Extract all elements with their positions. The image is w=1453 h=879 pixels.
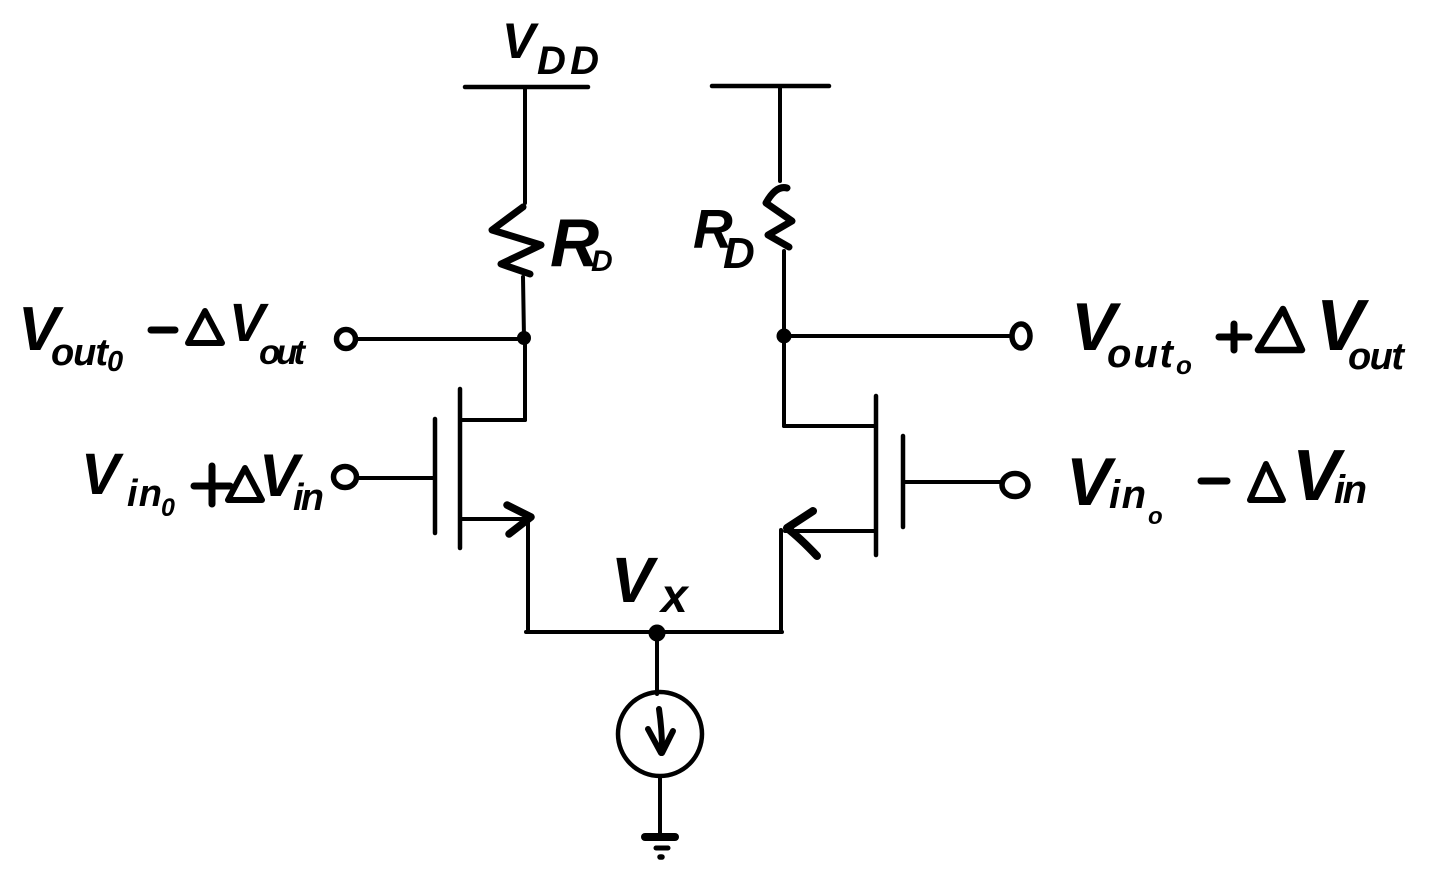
svg-text:o: o (1176, 350, 1192, 380)
svg-text:o: o (1148, 503, 1163, 530)
svg-text:in: in (127, 473, 162, 515)
svg-text:in: in (1109, 473, 1146, 517)
svg-text:0: 0 (161, 494, 175, 522)
svg-text:V: V (81, 442, 124, 507)
svg-text:D: D (723, 229, 755, 278)
svg-text:out: out (51, 332, 109, 374)
svg-text:D: D (591, 245, 613, 278)
svg-text:out: out (1348, 336, 1405, 378)
svg-text:DD: DD (537, 39, 599, 83)
svg-text:0: 0 (107, 346, 123, 378)
svg-text:in: in (293, 477, 324, 519)
svg-text:out: out (259, 333, 306, 372)
svg-text:x: x (658, 570, 690, 623)
svg-text:V: V (502, 13, 539, 69)
svg-text:V: V (611, 544, 659, 616)
svg-text:in: in (1334, 468, 1367, 512)
svg-text:out: out (1107, 332, 1175, 376)
